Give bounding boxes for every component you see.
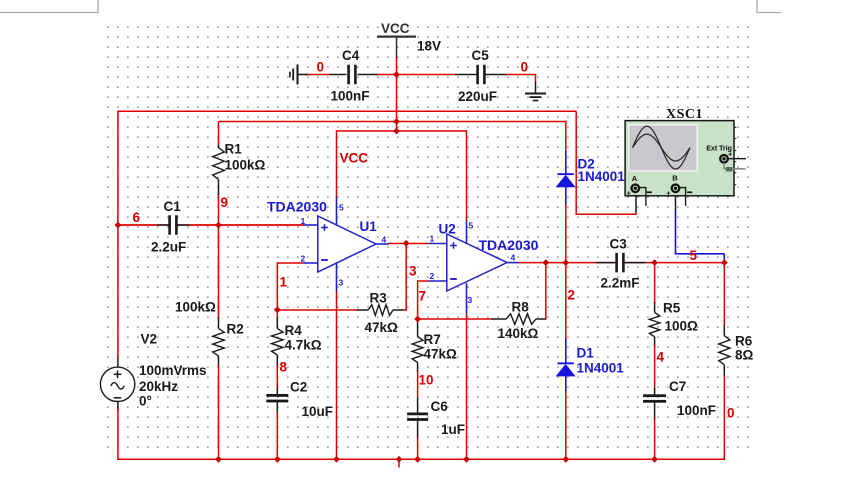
svg-text:0: 0: [317, 60, 325, 75]
svg-text:C3: C3: [610, 237, 628, 252]
svg-text:1: 1: [430, 234, 435, 244]
svg-text:D1: D1: [577, 346, 595, 361]
svg-text:1N4001: 1N4001: [577, 361, 625, 376]
svg-text:100kΩ: 100kΩ: [225, 158, 266, 173]
svg-text:2.2uF: 2.2uF: [151, 240, 186, 255]
svg-text:R5: R5: [663, 301, 681, 316]
svg-text:4.7kΩ: 4.7kΩ: [285, 338, 322, 353]
svg-text:R3: R3: [370, 291, 388, 306]
svg-text:C2: C2: [290, 380, 307, 395]
svg-text:10uF: 10uF: [302, 404, 334, 419]
svg-text:100nF: 100nF: [677, 403, 716, 418]
svg-text:C1: C1: [164, 199, 182, 214]
svg-text:5: 5: [469, 221, 474, 231]
svg-text:R2: R2: [227, 322, 244, 337]
svg-text:C5: C5: [472, 48, 490, 63]
svg-text:+: +: [627, 188, 632, 197]
svg-text:20kHz: 20kHz: [139, 379, 178, 394]
svg-text:TDA2030: TDA2030: [267, 199, 327, 215]
svg-text:U2: U2: [439, 222, 456, 237]
svg-text:9: 9: [221, 195, 229, 210]
svg-text:1N4001: 1N4001: [578, 169, 626, 184]
svg-text:+: +: [666, 189, 671, 198]
svg-text:10: 10: [419, 373, 434, 388]
svg-text:2.2mF: 2.2mF: [601, 276, 640, 291]
svg-text:4: 4: [382, 235, 387, 245]
svg-text:6: 6: [133, 210, 141, 225]
svg-text:C7: C7: [669, 379, 686, 394]
svg-text:R6: R6: [735, 334, 753, 349]
svg-text:B: B: [672, 173, 678, 182]
svg-text:1uF: 1uF: [441, 422, 465, 437]
svg-text:3: 3: [409, 264, 417, 279]
svg-text:8Ω: 8Ω: [735, 348, 754, 363]
svg-text:1: 1: [301, 216, 306, 226]
svg-text:XSC1: XSC1: [666, 107, 703, 122]
svg-text:3: 3: [339, 278, 344, 288]
svg-text:U1: U1: [360, 219, 378, 234]
svg-text:C4: C4: [342, 48, 360, 63]
svg-text:R8: R8: [512, 300, 530, 315]
svg-text:140kΩ: 140kΩ: [498, 326, 539, 341]
svg-text:R1: R1: [225, 142, 243, 157]
svg-text:R4: R4: [285, 323, 303, 338]
svg-text:C6: C6: [431, 399, 449, 414]
svg-text:4: 4: [511, 253, 516, 263]
svg-text:2: 2: [430, 271, 435, 281]
svg-text:0: 0: [521, 60, 529, 75]
svg-text:1: 1: [280, 275, 288, 290]
svg-text:2: 2: [301, 254, 306, 264]
svg-text:5: 5: [339, 203, 344, 213]
svg-text:A: A: [632, 174, 638, 183]
svg-text:8: 8: [280, 360, 288, 375]
svg-text:2: 2: [568, 288, 576, 303]
svg-text:100kΩ: 100kΩ: [175, 300, 216, 315]
svg-text:0: 0: [727, 406, 735, 421]
svg-text:Ext Trig: Ext Trig: [706, 144, 732, 153]
svg-text:5: 5: [690, 248, 698, 263]
svg-text:4: 4: [657, 350, 665, 365]
svg-text:R7: R7: [424, 332, 441, 347]
svg-text:V2: V2: [141, 332, 158, 347]
svg-text:TDA2030: TDA2030: [479, 237, 539, 253]
svg-text:18V: 18V: [417, 39, 441, 54]
svg-text:VCC: VCC: [340, 151, 369, 166]
svg-text:100mVrms: 100mVrms: [139, 363, 207, 378]
svg-text:47kΩ: 47kΩ: [424, 347, 458, 362]
svg-text:220uF: 220uF: [458, 89, 497, 104]
svg-text:7: 7: [419, 289, 427, 304]
svg-text:100nF: 100nF: [331, 89, 370, 104]
svg-text:0°: 0°: [139, 394, 152, 409]
svg-text:3: 3: [468, 295, 473, 305]
svg-text:100Ω: 100Ω: [665, 319, 699, 334]
svg-text:VCC: VCC: [381, 21, 410, 36]
svg-text:47kΩ: 47kΩ: [365, 320, 399, 335]
